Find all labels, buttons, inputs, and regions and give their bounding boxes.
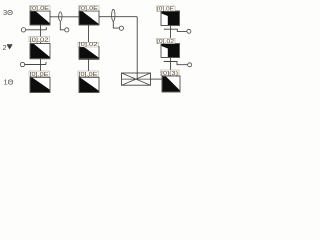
stem B1 to B2 [88, 25, 90, 47]
label of box A1 [30, 6, 51, 13]
stem C2 to C3 [170, 57, 172, 76]
vertical wire from corner down to crossed box [136, 17, 138, 79]
tap bar below A1 [26, 27, 47, 30]
box B1 [79, 11, 99, 25]
crossed box M1 [122, 73, 151, 85]
box C3 [162, 76, 180, 92]
svg-text:[0].0E: [0].0E [157, 7, 175, 13]
label of box C2 [157, 38, 176, 45]
box C1 [161, 11, 180, 26]
wire crossed box to C3 [151, 78, 163, 80]
box A2 [30, 44, 50, 59]
label of box A3 [29, 71, 50, 78]
terminal circle T4 left of tap bar A2 [20, 62, 24, 66]
svg-text:[0](3): [0](3) [161, 71, 178, 77]
svg-text:[0].0E: [0].0E [79, 72, 99, 78]
svg-text:[0].02: [0].02 [30, 37, 49, 43]
svg-text:[0].0E: [0].0E [30, 72, 50, 78]
row label 2-glyph [3, 43, 13, 52]
svg-text:[0].02: [0].02 [79, 42, 98, 48]
label of box C1 [157, 6, 176, 13]
tap bar below C1 [164, 29, 187, 31]
box B2 [79, 47, 99, 60]
stem B2 to B3 [88, 59, 90, 77]
wire B1 to corner [99, 16, 137, 18]
svg-text:[0].0E: [0].0E [79, 6, 99, 12]
tap bar below C2 [164, 62, 188, 65]
svg-text:[0].0E: [0].0E [30, 6, 50, 12]
hop H1 on wire at x60 [59, 12, 62, 21]
box A3 [30, 77, 50, 92]
wire A1 to B1 [50, 16, 79, 18]
stem A1 to A2 [40, 25, 42, 44]
terminal circle T1 [65, 28, 69, 32]
stem A2 to A3 [40, 59, 42, 78]
box C2 [161, 44, 180, 58]
terminal circle T6 right of tap bar C2 [188, 63, 192, 67]
row label 3-theta [3, 8, 13, 17]
svg-text:3Θ: 3Θ [3, 8, 13, 17]
terminal circle T3 left of tap bar A1 [21, 28, 25, 32]
row label 1-theta [4, 77, 14, 86]
tap bar below A2 [25, 62, 46, 65]
label of box B1 [79, 6, 100, 13]
svg-text:1Θ: 1Θ [4, 77, 14, 86]
label of box B2 [78, 42, 99, 48]
box A1 [30, 11, 50, 25]
stem C1 to C2 [170, 26, 172, 44]
terminal circle T2 [119, 26, 123, 30]
box B3 [79, 77, 99, 92]
label of box B3 [78, 71, 99, 78]
stub wire from hop H2 down to terminal [113, 21, 119, 28]
stub wire from hop H1 down to terminal [60, 21, 64, 30]
label of box A2 [29, 37, 50, 44]
label of box C3 [161, 70, 180, 77]
svg-text:2: 2 [3, 43, 7, 52]
terminal circle T5 right of tap bar C1 [187, 29, 191, 33]
svg-text:[0].02: [0].02 [157, 39, 174, 45]
hop H2 on wire at x113 [112, 9, 115, 21]
